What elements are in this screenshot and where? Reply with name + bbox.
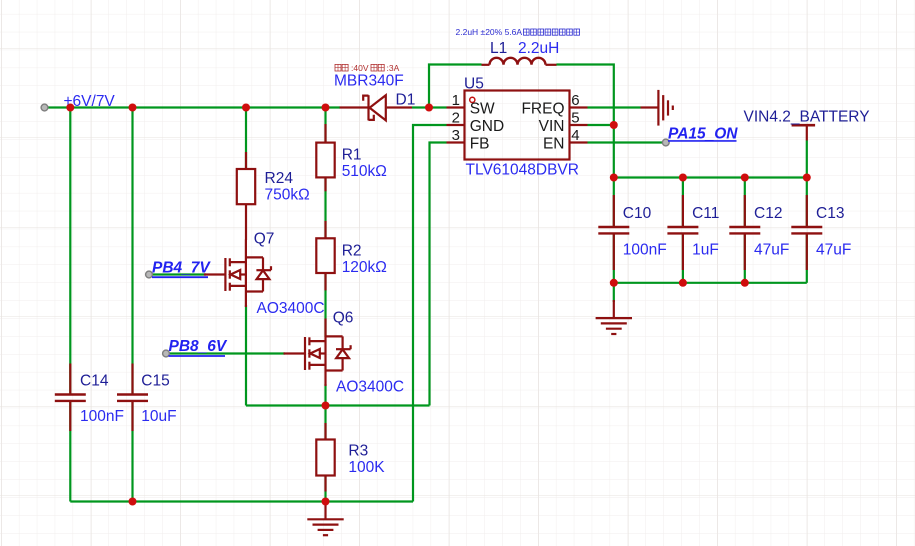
wire R24/Q7 column [245,108,247,170]
svg-text:GND: GND [470,118,504,135]
wire C13 column [806,141,808,228]
wire FREQ pin to chassis ground [588,106,641,108]
svg-text:TLV61048DBVR: TLV61048DBVR [466,162,579,179]
node VIN [610,121,618,129]
svg-text:100nF: 100nF [80,408,124,425]
wire bottom ground rail [70,500,413,502]
svg-text:120kΩ: 120kΩ [342,259,387,276]
capacitor C12 [729,195,760,270]
node rail-R24 [242,104,250,112]
svg-text:C11: C11 [692,205,719,222]
open pin endpoints [41,104,669,357]
wire SW node up to inductor left [429,65,482,108]
svg-text:6: 6 [571,92,579,109]
node rail-R1 [322,104,330,112]
node PA15_ON open end [662,139,669,146]
svg-text:C15: C15 [141,372,169,389]
capacitor C15 [117,364,148,432]
resistor R3 [316,423,334,492]
node gndrail-C15 [129,498,137,506]
svg-text:47uF: 47uF [816,241,851,258]
node topcaprail 1 [610,174,618,182]
svg-text:10uF: 10uF [141,408,176,425]
svg-text:MBR340F: MBR340F [334,72,404,89]
resistor R24 [237,152,255,240]
svg-text:EN: EN [543,135,565,152]
node PB4_7V open end [146,271,153,278]
svg-text:Q7: Q7 [254,231,275,248]
node botcaprail 2 [679,279,687,287]
node rail-C14 [66,104,74,112]
wire C12 column [744,178,746,228]
wire C11 column [682,178,684,228]
svg-text:D1: D1 [396,92,416,109]
node topcaprail 2 [679,174,687,182]
svg-text:C12: C12 [754,205,782,222]
wire +6V/7V main rail [47,106,340,108]
svg-text:SW: SW [470,100,495,117]
net port PB8_6V [169,338,228,356]
svg-text:4: 4 [571,127,579,144]
svg-text:AO3400C: AO3400C [336,379,404,396]
svg-text:PA15_ON: PA15_ON [668,126,738,143]
wire C10 column [613,178,615,228]
transistor Q7 AO3400C nmos [204,240,271,308]
svg-text:5: 5 [571,110,579,127]
node botcaprail 3 [741,279,749,287]
wire source/FB horizontal [246,404,430,406]
node FB junction [322,402,330,410]
wire C14 column [69,108,71,395]
svg-text:2: 2 [452,110,460,127]
wire R1/R2/Q6/R3 column [324,108,326,143]
diode D1 MBR340F schottky [340,95,412,120]
node SW [425,104,433,112]
svg-text:C10: C10 [623,205,652,222]
wire EN pin to PA15_ON [588,141,666,143]
svg-text:PB4_7V: PB4_7V [152,260,211,277]
capacitor C10 [598,195,629,270]
IC U5 body TLV61048DBVR [447,91,588,160]
transistor Q6 AO3400C nmos [284,319,351,387]
wire PB8_6V to Q6 gate [166,352,285,354]
resistor R1 [316,124,334,191]
node botcaprail 1 [610,279,618,287]
capacitor C11 [667,195,698,270]
wire C15 column [131,108,133,395]
wire D1 anode to SW pin [412,106,447,108]
ground under R3 [307,502,343,536]
svg-text:FREQ: FREQ [521,100,564,117]
svg-text::3A: :3A [387,63,400,73]
svg-text:+6V/7V: +6V/7V [64,93,116,110]
capacitor C13 [791,195,822,270]
svg-text:C13: C13 [816,205,844,222]
svg-text:VIN: VIN [539,118,565,135]
wire VIN pin to column [588,124,614,126]
node +6V/7V open end [41,104,48,111]
svg-text:U5: U5 [464,76,484,93]
resistor R2 [316,221,334,291]
node gndrail-R3 [322,498,330,506]
net port PB4_7V [152,260,211,278]
svg-text:VIN4.2_BATTERY: VIN4.2_BATTERY [744,109,870,126]
net port PA15_ON [668,126,738,143]
svg-text:2.2uH ±20% 5.6A: 2.2uH ±20% 5.6A [456,27,523,37]
svg-text:1uF: 1uF [692,241,719,258]
chassis ground at FREQ (rotated) [641,90,673,126]
capacitor C14 [55,364,86,432]
power flag VIN4.2_BATTERY [792,125,816,140]
svg-text:R24: R24 [265,170,294,187]
svg-text:3: 3 [452,127,460,144]
wire bottom capacitor rail [614,282,807,284]
svg-text:1: 1 [452,92,460,109]
ground under C10 [596,300,632,334]
attribute text of D1 (red) [335,64,384,71]
svg-text:C14: C14 [80,372,109,389]
svg-text:FB: FB [470,135,490,152]
svg-text:R3: R3 [348,443,368,460]
wire GND pin down to bottom rail [413,125,447,502]
wire FB pin down to feedback node [430,143,447,406]
wire top capacitor rail [614,176,807,178]
svg-text:AO3400C: AO3400C [257,300,325,317]
wire PB4_7V to Q7 gate [149,273,206,275]
wire inductor right to VIN column [557,65,614,178]
svg-text:PB8_6V: PB8_6V [169,338,228,355]
svg-text:2.2uH: 2.2uH [518,40,559,57]
svg-text:L1: L1 [490,40,507,57]
svg-text::40V: :40V [351,63,369,73]
svg-text:510kΩ: 510kΩ [342,163,387,180]
svg-text:100K: 100K [348,459,385,476]
svg-text:750kΩ: 750kΩ [265,187,310,204]
svg-text:R1: R1 [342,147,362,164]
node topcaprail 4 [803,174,811,182]
node rail-C15 [129,104,137,112]
svg-text:Q6: Q6 [333,310,354,327]
node topcaprail 3 [741,174,749,182]
svg-text:R2: R2 [342,243,362,260]
svg-text:47uF: 47uF [754,241,789,258]
node PB8_6V open end [163,350,170,357]
inductor L1 [482,58,557,65]
svg-text:100nF: 100nF [623,241,667,258]
